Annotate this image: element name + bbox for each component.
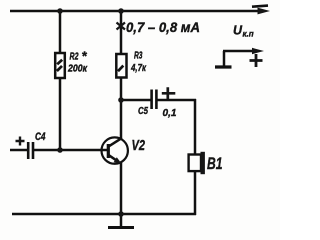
svg-text:R2: R2 bbox=[70, 52, 79, 63]
svg-text:200к: 200к bbox=[67, 64, 88, 75]
svg-text:С5: С5 bbox=[138, 105, 148, 117]
svg-text:0,1: 0,1 bbox=[163, 107, 177, 119]
svg-text:U: U bbox=[233, 24, 243, 38]
svg-text:В1: В1 bbox=[207, 155, 223, 173]
svg-text:0,7 – 0,8 мА: 0,7 – 0,8 мА bbox=[126, 20, 200, 35]
svg-text:4,7к: 4,7к bbox=[130, 63, 147, 74]
svg-text:к.п: к.п bbox=[243, 30, 254, 39]
svg-text:С4: С4 bbox=[35, 131, 46, 143]
svg-text:R3: R3 bbox=[134, 51, 143, 62]
svg-text:V2: V2 bbox=[132, 137, 146, 154]
svg-text:*: * bbox=[82, 49, 88, 64]
